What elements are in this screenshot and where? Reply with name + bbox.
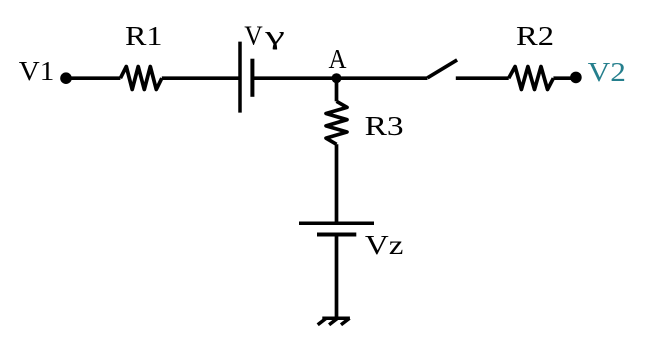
node A [332,73,342,83]
svg-text:V1: V1 [19,56,55,86]
wire battery Vz to ground [335,235,339,319]
resistor R2 [509,67,554,90]
svg-text:R3: R3 [365,111,404,141]
wire R3 to battery Vz [335,144,339,223]
ground hatch 1 [341,318,350,325]
wire switch to R2 [456,76,509,80]
wire R2 to terminal V2 [553,76,576,80]
switch SW1 blade [428,60,458,78]
wire battery Vg to node A [252,76,336,80]
wire node A to switch [337,76,428,80]
battery Vz short plate [317,233,356,237]
battery Vz long plate [299,222,374,226]
svg-text:V: V [244,21,263,51]
svg-text:Vz: Vz [365,230,404,260]
battery Vg short plate [250,59,254,97]
svg-text:A: A [329,44,347,74]
terminal V1 [60,72,72,84]
svg-text:R2: R2 [516,21,554,51]
battery Vg long plate [238,42,242,113]
terminal V2 [570,72,582,84]
svg-text:γ: γ [264,20,285,50]
wire R1 to battery Vg [162,76,240,80]
svg-text:V2: V2 [588,57,626,87]
ground bar [322,317,350,321]
ground hatch 2 [329,318,338,325]
ground hatch 3 [318,318,327,325]
resistor R3 [326,101,347,144]
wire node A down to R3 [335,78,339,101]
svg-text:R1: R1 [125,21,163,51]
wire V1 to R1 [66,76,120,80]
resistor R1 [120,67,161,90]
